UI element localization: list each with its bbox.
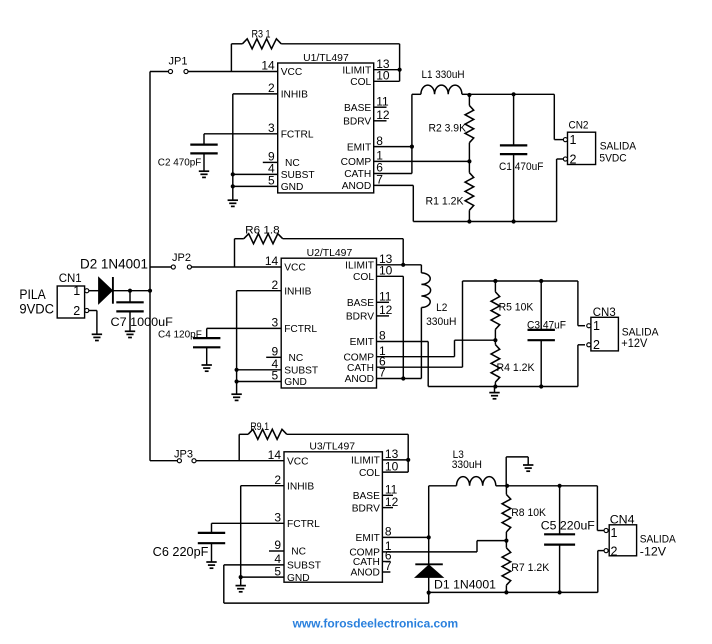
IC U3 pin 7 number: [385, 559, 392, 573]
svg-text:NC: NC: [285, 158, 300, 169]
svg-text:+12V: +12V: [621, 338, 647, 350]
IC U1 pin 14 number: [261, 59, 275, 73]
node GND junction: [231, 184, 235, 188]
wire U2 pin7 ANOD: [377, 378, 422, 380]
node INHIB/GND junction: [239, 575, 243, 579]
IC U3 pin 3 number: [274, 511, 281, 525]
svg-text:CATH: CATH: [353, 557, 380, 568]
svg-text:C4 120pF: C4 120pF: [158, 328, 202, 340]
label R4 value: [497, 362, 536, 374]
svg-text:VCC: VCC: [284, 263, 306, 274]
wire U3 pin10: [382, 460, 408, 472]
svg-text:10: 10: [376, 69, 390, 83]
svg-text:330uH: 330uH: [426, 316, 456, 328]
svg-text:ANOD: ANOD: [350, 568, 379, 579]
IC U3 pin 1 label COMP: [349, 548, 380, 559]
wire U2 pin9 NC stub: [266, 356, 281, 358]
IC U1 pin 6 number: [376, 161, 383, 175]
node SUBST junction U2: [235, 368, 239, 372]
IC U3 pin 8 label EMIT: [356, 533, 380, 544]
IC U1 pin 11 number: [376, 94, 389, 108]
op-amp-style IC box U1: [278, 63, 374, 193]
IC U2 pin 3 label FCTRL: [284, 324, 317, 335]
ground C4: [202, 365, 212, 371]
node C5 bottom junction: [558, 590, 562, 594]
svg-text:8: 8: [379, 329, 386, 343]
svg-text:SALIDA: SALIDA: [600, 141, 637, 153]
label R6 value: [245, 225, 280, 237]
IC U2 pin 4 number: [272, 357, 279, 371]
wire U1 pin11 stub: [374, 106, 387, 108]
label D2 value: [80, 256, 148, 271]
wire stage1 bottom rail: [413, 159, 563, 222]
svg-text:C1 470uF: C1 470uF: [499, 161, 543, 173]
IC U2 pin 10 label COL: [353, 272, 374, 283]
wire stage3 output bottom rail: [429, 551, 604, 593]
label JP2: [172, 252, 191, 264]
label CN1: [59, 273, 82, 285]
ground U1 GND: [228, 200, 238, 206]
ground C2: [199, 171, 209, 177]
IC U1 pin 1 label COMP: [341, 157, 372, 168]
IC U2 pin 2 label INHIB: [284, 286, 311, 297]
svg-text:14: 14: [261, 59, 275, 73]
resistor R2: [465, 95, 474, 161]
IC U1 pin 14 label VCC: [281, 67, 303, 78]
svg-text:C2 470pF: C2 470pF: [158, 157, 202, 169]
ground U2 GND: [231, 394, 241, 400]
svg-text:SUBST: SUBST: [281, 170, 315, 181]
wire U3 pin9 NC stub: [269, 550, 284, 552]
footer website text: [292, 617, 458, 631]
wire U1 pin8 EMIT: [374, 146, 412, 148]
node COMP/R8/R7 junction: [504, 539, 508, 543]
label L3 value: [452, 449, 482, 471]
svg-text:COL: COL: [353, 272, 374, 283]
IC U3 pin 12 label BDRV: [352, 503, 380, 514]
resistor R8: [502, 486, 511, 541]
wire U3 pin8 EMIT: [382, 536, 428, 538]
svg-text:3: 3: [268, 121, 275, 135]
IC U3 pin 5 number: [274, 564, 281, 578]
IC U3 title: [309, 442, 355, 453]
capacitor C4: [193, 338, 220, 365]
capacitor C7: [116, 291, 143, 331]
svg-text:R1 1.2K: R1 1.2K: [426, 196, 465, 208]
node COMP/R2/R1 junction: [467, 159, 471, 163]
IC U2 pin 13 number: [379, 252, 393, 266]
svg-text:ANOD: ANOD: [345, 374, 374, 385]
svg-text:5VDC: 5VDC: [599, 152, 626, 164]
svg-text:2: 2: [274, 473, 281, 487]
IC U2 pin 5 number: [272, 369, 279, 383]
resistor R5: [491, 281, 500, 340]
IC U2 pin 3 number: [272, 316, 279, 330]
svg-text:CATH: CATH: [344, 169, 371, 180]
svg-text:INHIB: INHIB: [281, 90, 308, 101]
IC U3 pin 13 label ILIMIT: [351, 456, 380, 467]
IC U3 pin 7 label ANOD: [350, 568, 379, 579]
svg-text:BDRV: BDRV: [343, 117, 371, 128]
svg-text:5: 5: [268, 174, 275, 188]
label C2 value: [158, 157, 202, 169]
wire stage3 top rail: [507, 486, 604, 531]
svg-text:8: 8: [376, 134, 383, 148]
wire CN1 pin1 to D2: [89, 290, 99, 292]
svg-text:SUBST: SUBST: [287, 561, 321, 572]
IC U1 pin 3 label FCTRL: [281, 130, 314, 141]
IC U2 pin 6 number: [379, 354, 386, 368]
IC U3 pin 5 label GND: [287, 573, 310, 584]
svg-text:2: 2: [593, 338, 600, 352]
svg-text:1: 1: [570, 133, 577, 147]
svg-text:2: 2: [73, 304, 80, 318]
resistor R9: [239, 429, 408, 460]
IC U2 pin 11 number: [379, 290, 392, 304]
CN3 pin 1 number: [593, 319, 600, 333]
svg-text:R7 1.2K: R7 1.2K: [511, 562, 550, 574]
wire U3 pin12 stub: [382, 507, 393, 509]
wire U1 pin3 FCTRL: [204, 134, 278, 145]
wire JP3 to U3 VCC pin 14: [196, 460, 284, 462]
wire U1 pin10: [374, 70, 400, 82]
wire stage2 bottom rail: [428, 345, 585, 387]
svg-text:BDRV: BDRV: [346, 312, 374, 323]
jumper JP1: [168, 69, 188, 73]
svg-text:NC: NC: [291, 547, 306, 558]
label SALIDA +12V: [621, 326, 659, 350]
IC U3 pin 11 number: [385, 483, 398, 497]
label C4 value: [158, 328, 202, 340]
wire U3 pin13: [382, 459, 408, 461]
op-amp-style IC box U3: [284, 452, 382, 582]
CN1 pin 1 number: [73, 284, 80, 298]
node COL/ANOD junction: [401, 376, 405, 380]
CN1 pin 2 number: [73, 304, 80, 318]
svg-text:COMP: COMP: [343, 352, 374, 363]
IC U2 pin 2 number: [272, 278, 279, 292]
IC U2 pin 6 label CATH: [347, 363, 374, 374]
label JP1: [169, 56, 188, 68]
capacitor C1: [500, 94, 527, 221]
node pin13/R3 junction: [398, 68, 402, 72]
IC U2 pin 11 label BASE: [347, 298, 374, 309]
svg-text:EMIT: EMIT: [347, 142, 371, 153]
svg-text:CN4: CN4: [610, 512, 635, 526]
wire U1 pin2 INHIB: [233, 94, 278, 200]
IC U1 pin 6 label CATH: [344, 169, 371, 180]
svg-text:7: 7: [376, 173, 383, 187]
resistor R7: [502, 541, 511, 593]
svg-text:1: 1: [611, 526, 618, 540]
IC U3 pin 6 label CATH: [353, 557, 380, 568]
wire stage1 top rail: [469, 94, 563, 139]
wire D1 vertical: [428, 537, 430, 603]
svg-text:12: 12: [376, 108, 390, 122]
svg-text:COL: COL: [359, 468, 380, 479]
svg-text:COMP: COMP: [341, 157, 372, 168]
IC U3 pin 2 number: [274, 473, 281, 487]
label L1 value: [422, 69, 465, 81]
wire U2 pin11 stub: [377, 301, 390, 303]
IC U2 pin 12 number: [379, 303, 393, 317]
svg-text:12: 12: [385, 495, 399, 509]
label D1 value: [434, 578, 496, 592]
svg-text:2: 2: [272, 278, 279, 292]
svg-text:CN2: CN2: [569, 120, 589, 132]
IC U1 pin 12 label BDRV: [343, 117, 371, 128]
ground near L3: [506, 457, 533, 486]
wire U2 pin1 COMP: [377, 340, 496, 357]
svg-text:L2: L2: [436, 302, 447, 314]
svg-text:3: 3: [272, 316, 279, 330]
IC U1 pin 4 number: [268, 162, 275, 176]
label CN3: [593, 307, 616, 319]
ground U3 GND: [236, 586, 246, 592]
svg-text:CATH: CATH: [347, 363, 374, 374]
label R8 value: [511, 507, 546, 519]
svg-text:NC: NC: [289, 353, 304, 364]
wire U3 pin6 CATH stub: [382, 561, 390, 563]
svg-text:2: 2: [611, 544, 618, 558]
svg-text:5: 5: [274, 564, 281, 578]
connector CN4: [604, 525, 637, 556]
IC U1 pin 1 number: [376, 149, 383, 163]
IC U3 pin 4 number: [274, 552, 281, 566]
wire JP1 to U1 VCC pin 14: [188, 71, 278, 73]
node D1 anode junction: [427, 591, 431, 595]
svg-text:EMIT: EMIT: [356, 533, 380, 544]
wire U2 pin6 CATH: [377, 281, 463, 367]
svg-text:11: 11: [376, 94, 389, 108]
IC U1 pin 2 number: [268, 81, 275, 95]
svg-text:PILA: PILA: [19, 287, 45, 302]
IC U1 pin 8 label EMIT: [347, 142, 371, 153]
wire U2 pin3 FCTRL: [207, 328, 282, 338]
label C6 value: [153, 545, 209, 559]
wire U3 pin4 SUBST rail: [224, 565, 429, 603]
IC U2 pin 12 label BDRV: [346, 312, 374, 323]
svg-text:U3/TL497: U3/TL497: [309, 442, 355, 453]
IC U3 pin 4 label SUBST: [287, 561, 321, 572]
CN2 pin 1 number: [570, 133, 577, 147]
label R1 value: [426, 196, 465, 208]
label R9 value: [250, 421, 269, 433]
node COMP/R5/R4 junction: [493, 338, 497, 342]
node bus/D2 junction: [148, 289, 152, 293]
CN4 pin 1 number: [611, 526, 618, 540]
svg-text:R5 10K: R5 10K: [499, 302, 534, 314]
ground R4 bottom: [489, 387, 499, 399]
svg-text:BASE: BASE: [347, 298, 374, 309]
jumper JP3: [177, 459, 196, 463]
wire bus to JP1: [150, 71, 168, 73]
IC U3 pin 13 number: [385, 447, 399, 461]
CN3 pin 2 number: [593, 338, 600, 352]
svg-text:INHIB: INHIB: [284, 286, 311, 297]
svg-text:FCTRL: FCTRL: [284, 324, 317, 335]
IC U2 pin 1 number: [379, 344, 386, 358]
svg-text:U1/TL497: U1/TL497: [303, 53, 349, 64]
svg-text:ILIMIT: ILIMIT: [345, 261, 374, 272]
svg-text:R9 1: R9 1: [250, 421, 269, 433]
node C5 top junction: [558, 484, 562, 488]
capacitor C6: [198, 533, 225, 562]
ground C7: [125, 331, 135, 337]
node GND junction U2: [235, 379, 239, 383]
wire L3 left vertical: [428, 486, 430, 538]
svg-text:R2 3.9K: R2 3.9K: [429, 122, 467, 134]
label JP3: [174, 449, 193, 461]
wire U3 pin1 COMP: [382, 541, 506, 552]
svg-text:10: 10: [385, 459, 399, 473]
IC U3 pin 2 label INHIB: [287, 481, 314, 492]
svg-text:1: 1: [73, 284, 80, 298]
svg-text:CN3: CN3: [593, 307, 616, 319]
node EMIT/L1 junction: [410, 145, 414, 149]
IC U3 pin 14 label VCC: [287, 456, 309, 467]
svg-text:JP1: JP1: [169, 56, 188, 68]
capacitor C2: [190, 145, 217, 171]
jumper JP2: [171, 265, 191, 269]
node R1 bottom junction: [467, 219, 471, 223]
IC U3 pin 6 number: [385, 549, 392, 563]
wire U1 pin13: [374, 69, 400, 71]
label SALIDA 5VDC: [599, 141, 636, 165]
wire D2 cathode to bus: [113, 290, 150, 292]
svg-text:EMIT: EMIT: [350, 337, 374, 348]
node R2 top junction: [467, 93, 471, 97]
svg-text:BASE: BASE: [353, 491, 380, 502]
wire stage2 top rail: [463, 281, 586, 326]
svg-text:BASE: BASE: [344, 103, 371, 114]
inductor L3: [429, 477, 507, 486]
wire U2 pin13 to L2: [377, 264, 422, 266]
svg-text:9VDC: 9VDC: [19, 302, 54, 317]
connector CN1: [57, 286, 89, 318]
svg-text:FCTRL: FCTRL: [287, 519, 320, 530]
IC U2 pin 13 label ILIMIT: [345, 261, 374, 272]
label CN2: [569, 120, 589, 132]
IC U1 pin 12 number: [376, 108, 390, 122]
wire U3 pin3 FCTRL: [212, 523, 285, 533]
svg-text:VCC: VCC: [287, 456, 309, 467]
IC U1 pin 7 number: [376, 173, 383, 187]
IC U1 pin 13 label ILIMIT: [342, 65, 371, 76]
IC U1 pin 10 number: [376, 69, 390, 83]
IC U1 pin 9 label NC: [285, 158, 300, 169]
node SUBST junction: [231, 172, 235, 176]
wire U3 pin2 INHIB: [241, 486, 284, 586]
svg-text:CN1: CN1: [59, 273, 82, 285]
IC U2 pin 8 label EMIT: [350, 337, 374, 348]
IC U3 pin 14 number: [268, 448, 282, 462]
node C7 top junction: [128, 289, 132, 293]
svg-text:ILIMIT: ILIMIT: [342, 65, 371, 76]
IC U1 pin 5 label GND: [281, 182, 304, 193]
resistor R6: [235, 234, 404, 267]
svg-text:COL: COL: [350, 77, 371, 88]
IC U3 pin 12 number: [385, 495, 399, 509]
IC U2 pin 7 number: [379, 366, 386, 380]
node R4 bottom junction: [493, 384, 497, 388]
svg-text:C6 220pF: C6 220pF: [153, 545, 209, 559]
node R5 top junction: [493, 279, 497, 283]
capacitor C3: [528, 281, 555, 387]
wire input bus vertical: [149, 72, 151, 461]
svg-text:12: 12: [379, 303, 393, 317]
svg-text:ILIMIT: ILIMIT: [351, 456, 380, 467]
IC U2 pin 8 number: [379, 329, 386, 343]
wire U1 pin12 stub: [374, 120, 387, 122]
wire U1 pin5 GND: [233, 185, 278, 187]
svg-text:JP2: JP2: [172, 252, 191, 264]
IC U3 pin 3 label FCTRL: [287, 519, 320, 530]
connector CN3: [587, 317, 619, 351]
node C3 top junction: [539, 279, 543, 283]
resistor R3: [231, 39, 399, 72]
svg-text:8: 8: [385, 525, 392, 539]
svg-text:U2/TL497: U2/TL497: [307, 248, 353, 259]
IC U1 pin 4 label SUBST: [281, 170, 315, 181]
node R7 bottom junction: [504, 590, 508, 594]
svg-text:2: 2: [268, 81, 275, 95]
svg-text:R6 1.8: R6 1.8: [245, 225, 280, 237]
connector CN2: [563, 132, 595, 164]
IC U3 pin 9 number: [274, 538, 281, 552]
IC U2 pin 9 number: [272, 345, 279, 359]
svg-text:330uH: 330uH: [452, 459, 482, 471]
wire U2 pin5 GND: [237, 381, 282, 383]
label L2 value: [426, 302, 456, 328]
wire bus to JP3: [150, 460, 177, 462]
IC U2 pin 14 number: [265, 254, 279, 268]
wire U2 pin8 EMIT: [377, 342, 429, 387]
IC U1 pin 5 number: [268, 174, 275, 188]
wire U1 pin7 ANOD: [374, 185, 414, 221]
wire U2 pin10 COL: [377, 276, 404, 378]
label C3 value: [527, 319, 566, 331]
wire CN1 pin2 to ground: [89, 311, 97, 334]
wire U3 pin11 stub: [382, 494, 393, 496]
IC U1 pin 9 number: [268, 150, 275, 164]
svg-text:INHIB: INHIB: [287, 481, 314, 492]
IC U3 pin 10 label COL: [359, 468, 380, 479]
svg-text:C5 220uF: C5 220uF: [541, 519, 595, 533]
CN4 pin 2 number: [611, 544, 618, 558]
node C1 top junction: [511, 92, 515, 96]
label C7 value: [111, 315, 173, 329]
IC U1 pin 2 label INHIB: [281, 90, 308, 101]
svg-text:R4 1.2K: R4 1.2K: [497, 362, 536, 374]
resistor R4: [491, 340, 500, 386]
svg-text:FCTRL: FCTRL: [281, 130, 314, 141]
IC U1 pin 8 number: [376, 134, 383, 148]
capacitor C5: [544, 486, 575, 593]
IC U2 pin 5 label GND: [284, 377, 307, 388]
IC U2 pin 1 label COMP: [343, 352, 374, 363]
svg-text:1: 1: [593, 319, 600, 333]
label CN4: [610, 512, 635, 526]
ground CN1 pin2: [92, 334, 102, 340]
wire L1 left node vertical: [411, 94, 413, 173]
wire U1 pin6 CATH: [374, 173, 412, 175]
wire U2 pin2 INHIB: [237, 291, 282, 394]
svg-text:3: 3: [274, 511, 281, 525]
svg-text:C3 47uF: C3 47uF: [527, 319, 566, 331]
label R3 value: [252, 29, 271, 41]
IC U1 title: [303, 53, 349, 64]
